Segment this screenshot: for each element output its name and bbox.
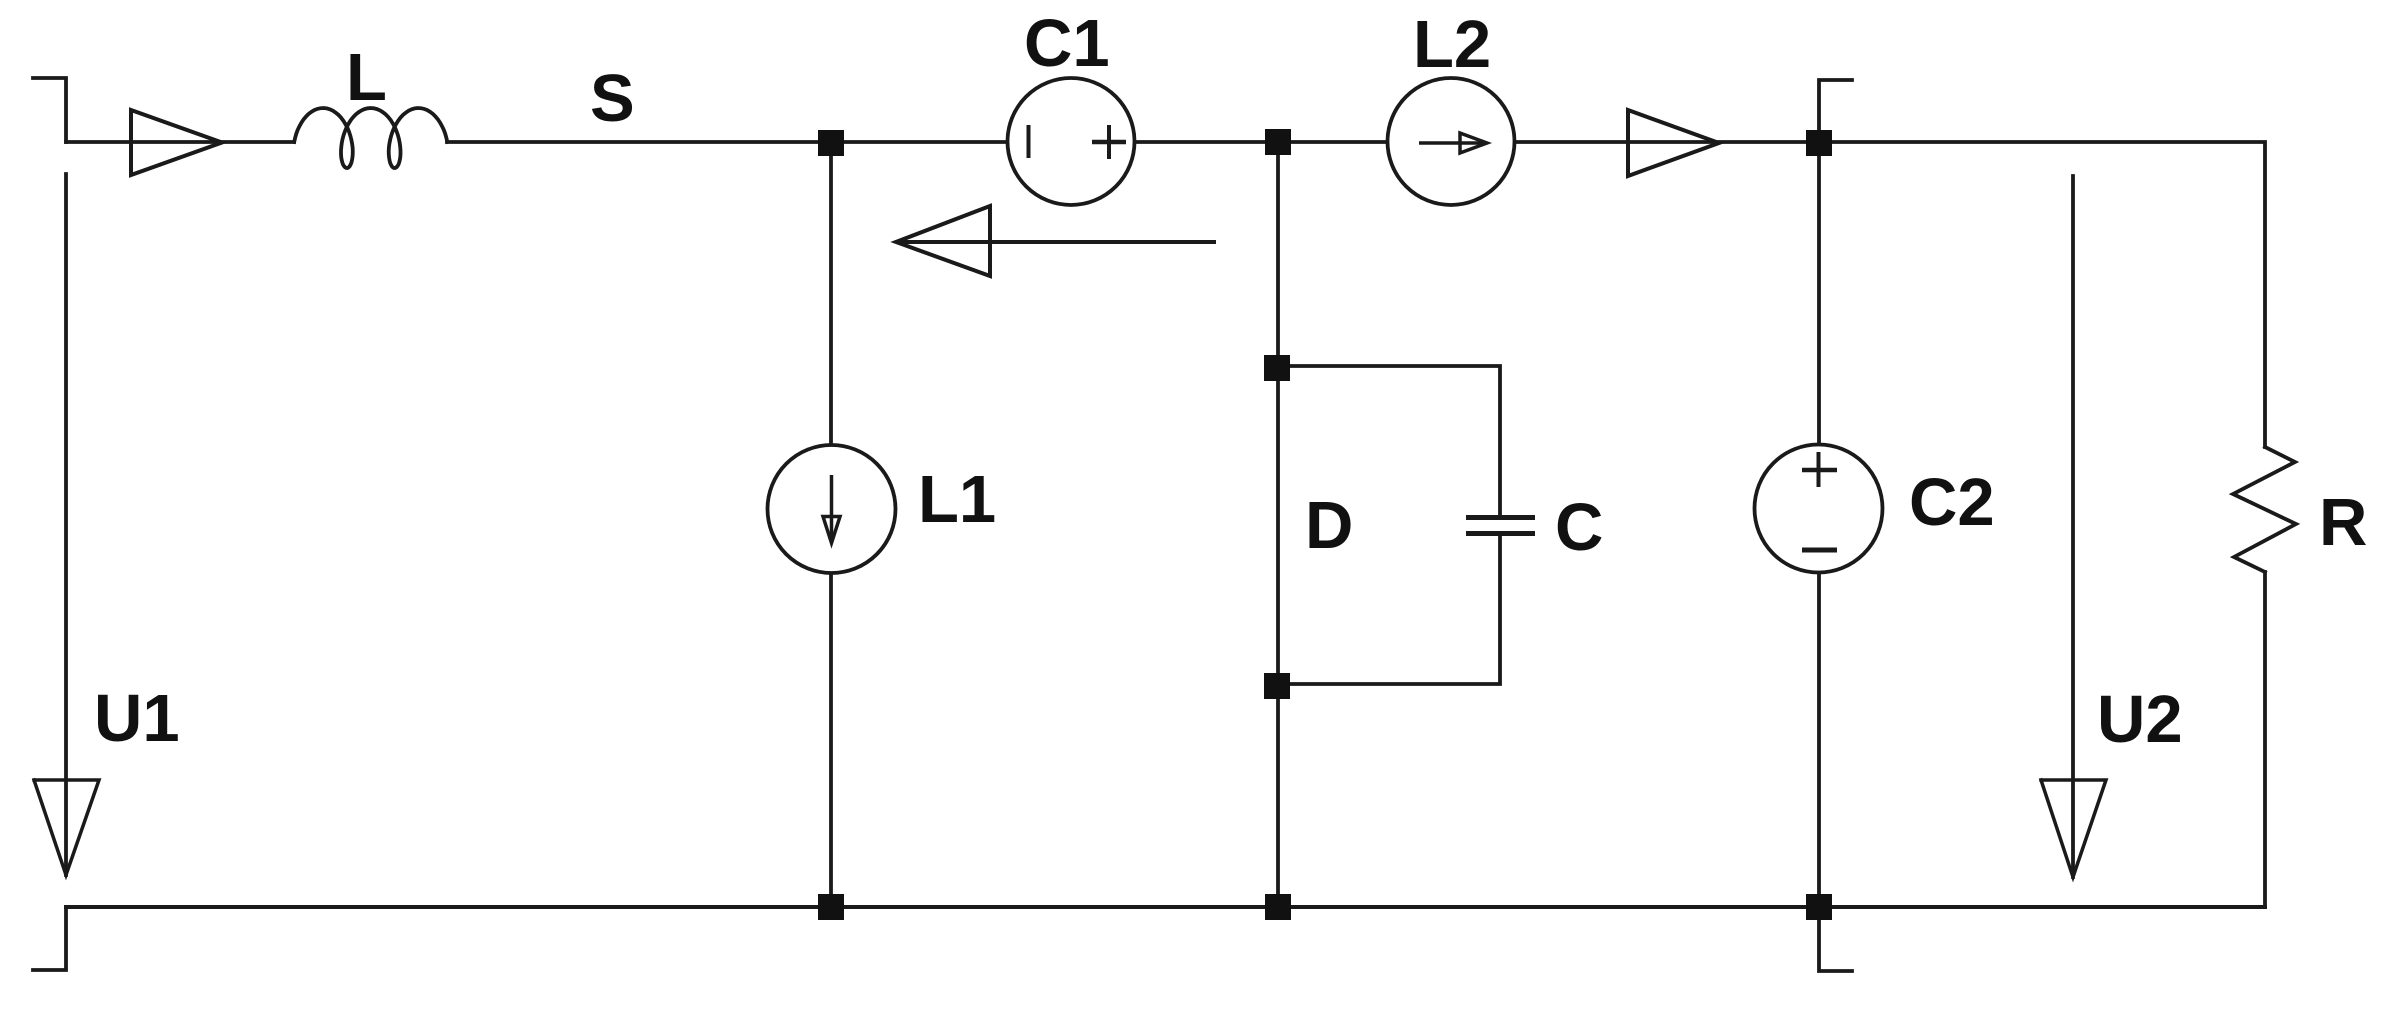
svg-text:U1: U1 (94, 681, 180, 756)
svg-text:L2: L2 (1413, 7, 1491, 82)
svg-text:R: R (2319, 485, 2367, 560)
svg-text:C1: C1 (1024, 6, 1110, 81)
svg-text:L1: L1 (918, 462, 996, 537)
svg-text:D: D (1305, 488, 1353, 563)
svg-text:U2: U2 (2097, 682, 2183, 757)
svg-text:C: C (1555, 490, 1603, 565)
svg-text:C2: C2 (1909, 465, 1995, 540)
svg-text:L: L (346, 40, 387, 115)
svg-text:S: S (590, 61, 635, 136)
